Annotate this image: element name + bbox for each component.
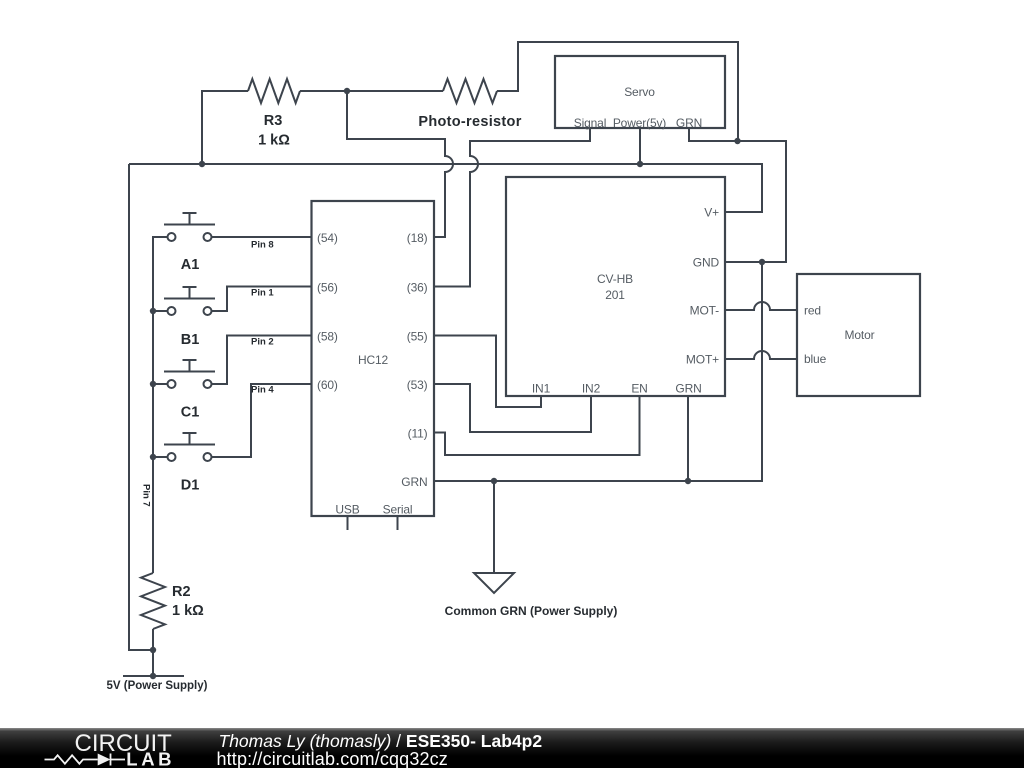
svg-text:1 kΩ: 1 kΩ [172, 603, 204, 619]
svg-text:Signal: Signal [574, 116, 606, 130]
wire R2 bottom to 5V bar [152, 629, 154, 676]
node servo GRN loop [734, 138, 740, 144]
wire B1 to HC12 pin 56 [212, 287, 312, 312]
wire GND branch down to GRN rail [434, 262, 762, 481]
svg-text:Photo-resistor: Photo-resistor [418, 114, 521, 130]
svg-text:(36): (36) [407, 281, 428, 295]
pushbutton D1 [164, 433, 215, 461]
wire R3 left lead [202, 91, 248, 164]
wire D1 to HC12 pin 60 [212, 384, 312, 457]
node GRN rail ground [491, 478, 497, 484]
svg-text:LAB: LAB [126, 749, 175, 768]
svg-text:Pin 7: Pin 7 [141, 484, 152, 507]
wire photo-resistor top loop [497, 42, 738, 141]
svg-text:EN: EN [631, 382, 647, 396]
svg-text:5V (Power Supply): 5V (Power Supply) [107, 680, 208, 692]
wire CV-HB MOT+ to Motor blue with hop [725, 351, 797, 359]
svg-text:blue: blue [804, 352, 827, 366]
ground Common GRN [474, 573, 514, 593]
svg-text:(56): (56) [317, 281, 338, 295]
svg-text:Thomas Ly (thomasly) / ESE350-: Thomas Ly (thomasly) / ESE350- Lab4p2 [219, 731, 543, 751]
wire 5V rail to V+ [129, 164, 762, 212]
resistor R3 [248, 79, 300, 103]
svg-text:A1: A1 [181, 257, 200, 273]
wire R3 to photo-resistor [300, 90, 443, 92]
footer bar [0, 728, 1024, 768]
svg-text:(11): (11) [408, 427, 428, 441]
wire D1 left lead [153, 456, 168, 458]
node GND branch [759, 259, 765, 265]
svg-text:Pin 4: Pin 4 [251, 385, 274, 396]
node R3-rail [199, 161, 205, 167]
svg-text:IN1: IN1 [532, 382, 551, 396]
svg-text:Pin 1: Pin 1 [251, 288, 274, 299]
svg-text:Pin 2: Pin 2 [251, 337, 274, 348]
wire C1 to HC12 pin 58 [212, 336, 312, 385]
svg-text:(60): (60) [317, 378, 338, 392]
Motor box [797, 274, 920, 396]
wire HC12 pin 53 to CV-HB IN2 [434, 384, 591, 432]
svg-text:V+: V+ [704, 206, 719, 220]
wire servo Power(5v) to 5V rail [639, 128, 641, 164]
pushbutton A1 [164, 213, 215, 241]
svg-text:Common GRN (Power Supply): Common GRN (Power Supply) [445, 604, 618, 618]
wire HC12 pin 55 to CV-HB IN1 [434, 336, 541, 408]
svg-text:GRN: GRN [676, 116, 702, 130]
pushbutton C1 [164, 360, 215, 388]
node rail D1 [150, 454, 156, 460]
svg-text:Motor: Motor [845, 328, 875, 342]
svg-text:Power(5v): Power(5v) [613, 116, 666, 130]
svg-text:C1: C1 [181, 405, 200, 421]
node rail C1 [150, 381, 156, 387]
node rail B1 [150, 308, 156, 314]
svg-text:Serial: Serial [383, 503, 413, 517]
svg-text:MOT+: MOT+ [686, 353, 719, 367]
svg-text:GRN: GRN [675, 382, 701, 396]
svg-text:(55): (55) [407, 330, 428, 344]
node R2 bottom [150, 647, 156, 653]
pushbutton B1 [164, 287, 215, 315]
svg-text:(58): (58) [317, 330, 338, 344]
svg-text:GRN: GRN [401, 475, 427, 489]
svg-text:GND: GND [693, 256, 720, 270]
wire CV-HB GRN pin down [687, 396, 689, 481]
logo resistor-diode glyph [45, 754, 126, 766]
node GRN rail CV-HB [685, 478, 691, 484]
svg-text:R3: R3 [264, 113, 283, 129]
resistor Photo-resistor [443, 79, 497, 103]
svg-text:R2: R2 [172, 584, 191, 600]
svg-text:(18): (18) [407, 231, 428, 245]
svg-text:B1: B1 [181, 332, 200, 348]
wire ground branch [493, 481, 495, 573]
CV-HB box U1 [506, 177, 725, 396]
svg-text:MOT-: MOT- [690, 304, 720, 318]
node 5V bar [150, 673, 156, 679]
wire servo GRN to CV-HB GND [689, 128, 786, 262]
svg-text:HC12: HC12 [358, 353, 389, 367]
svg-text:USB: USB [335, 503, 359, 517]
HC12 box [312, 201, 435, 516]
wire left tall branch 5V [129, 164, 153, 650]
wire A1 to HC12 pin 54 [212, 236, 312, 238]
node Power5v-rail [637, 161, 643, 167]
wire CV-HB MOT- to Motor red with hop [725, 302, 797, 310]
svg-text:(53): (53) [407, 378, 428, 392]
wire B1 left lead [153, 310, 168, 312]
wire node to HC12 pin 18 with hop [347, 91, 453, 237]
wire Serial tick [397, 516, 399, 530]
svg-text:CV-HB: CV-HB [597, 272, 633, 286]
power supply 5V bar [123, 675, 184, 677]
node R3-photoresistor [344, 88, 350, 94]
svg-text:red: red [804, 304, 821, 318]
svg-text:1 kΩ: 1 kΩ [258, 133, 290, 149]
resistor R2 [141, 573, 165, 629]
svg-text:Pin 8: Pin 8 [251, 240, 274, 251]
svg-text:(54): (54) [317, 231, 338, 245]
wire servo Signal to HC12 pin 36 with hop [434, 128, 590, 287]
wire buttons left rail [153, 237, 168, 573]
wire USB tick [347, 516, 349, 530]
wire C1 left lead [153, 383, 168, 385]
svg-text:201: 201 [605, 288, 625, 302]
svg-text:http://circuitlab.com/cqq32cz: http://circuitlab.com/cqq32cz [217, 749, 448, 768]
svg-text:D1: D1 [181, 478, 200, 494]
Servo box [555, 56, 725, 128]
svg-text:Servo: Servo [624, 85, 655, 99]
svg-text:IN2: IN2 [582, 382, 601, 396]
wire HC12 pin 11 to CV-HB EN [434, 396, 640, 455]
